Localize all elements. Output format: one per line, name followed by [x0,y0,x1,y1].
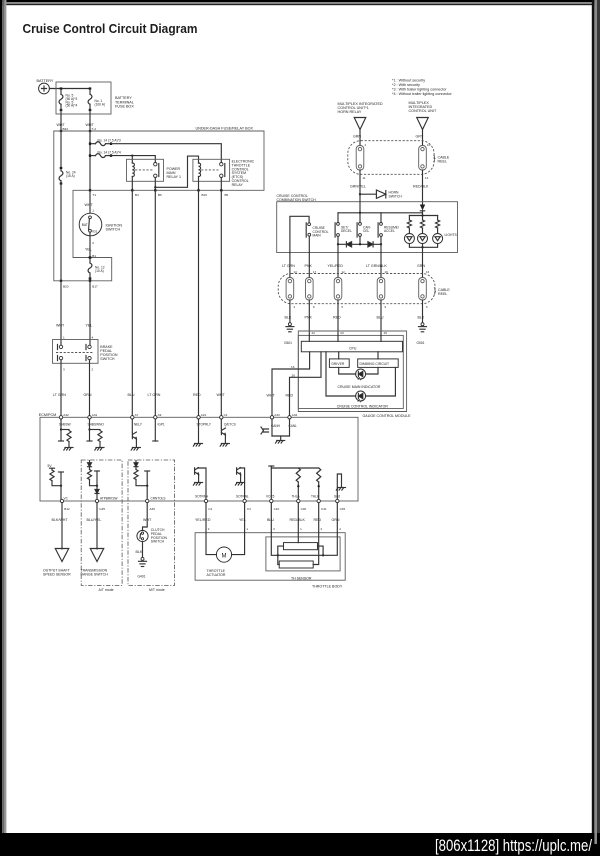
TH sensor right link [318,546,324,555]
ECM/PCM box [40,417,358,501]
svg-text:NELY: NELY [134,423,143,427]
wire relay2 coil to B10 [198,177,200,191]
CANL wire RED to gauge CPU [290,352,322,416]
brake switch dashed actuator [56,352,94,354]
clutch pedal position switch [137,530,148,541]
relay2 contact bottom [220,174,223,177]
main switch terminal bottom [308,233,311,236]
svg-text:C45: C45 [340,507,346,511]
svg-text:Cruise Control Circuit Diagram: Cruise Control Circuit Diagram [23,22,198,36]
relay1 contact top [154,163,157,166]
ignition blade [88,219,91,230]
dimming circuit box [358,359,399,368]
ECM pin A9 [154,416,157,419]
wire set to YEL/RED output [337,244,339,252]
ATP output diode [95,490,99,494]
THLA sense resistor [296,468,300,482]
A41 input network [89,419,91,441]
svg-text:No. 14 (7.5 A)*3: No. 14 (7.5 A)*3 [98,139,121,143]
svg-text:C30: C30 [301,507,307,511]
wire YEL to throttle actuator [244,503,246,533]
ECM pin A21 [197,416,200,419]
node B1 [89,256,91,258]
relay2 contact top [220,163,223,166]
ATP node [96,485,98,487]
svg-text:BAT: BAT [82,223,88,227]
A21 driver to ground [198,419,200,443]
cable reel 2 dashed box [278,274,435,304]
svg-text:GAUGE CONTROL MODULE: GAUGE CONTROL MODULE [363,414,412,418]
ECM bottom pin C4 [204,499,207,502]
wire GRN output [422,253,424,278]
ECM pin A42 [59,416,62,419]
diode D1 [346,242,351,247]
TH sensor RED/BLK wiring [297,533,299,543]
resume switch terminal top [380,223,383,226]
wire PNK into CPU [308,335,310,341]
ATP network diode [88,463,92,467]
set switch terminal top [337,223,340,226]
wire BLU/YEL to transmission range switch [96,503,98,549]
throttle actuator motor wires [206,533,216,555]
cable reel 1 connector right [419,146,427,171]
svg-text:M: M [222,553,227,559]
wire B10 RED to ECM A21 [198,190,200,415]
svg-text:RED: RED [333,316,341,320]
arrow RED/BLK into lamp feed [420,205,425,211]
wire resume to LT GRN/BLK output [380,244,382,252]
svg-text:BLK: BLK [136,550,143,554]
THLB sense resistor [317,468,321,482]
svg-text:(10 A): (10 A) [95,269,104,273]
svg-text:G401: G401 [138,575,146,579]
cruise control indicator box [298,335,403,408]
svg-text:VCC5: VCC5 [266,495,275,499]
wire junction down to relay1 coil [131,156,133,163]
brake switch pin3 bottom-left [59,356,62,359]
watermark bar [0,833,600,856]
svg-text:IG1: IG1 [92,229,97,233]
svg-text:B4: B4 [135,193,139,197]
TH sensor resistor bar upper [284,543,318,550]
main switch wire to PNK output [308,236,310,252]
wire relay1 contact to B6 [154,178,156,191]
lamp L3 [437,228,439,233]
junction to relay coil [131,154,133,156]
svg-text:RED: RED [193,393,201,397]
SG2 ground wire [337,474,341,501]
svg-text:22: 22 [312,331,316,335]
svg-text:SWITCH: SWITCH [389,195,403,199]
svg-text:A43: A43 [274,413,280,417]
svg-text:REEL: REEL [438,160,447,164]
junction relay1 contact branch [154,186,156,188]
svg-text:G501: G501 [417,341,425,345]
svg-text:GRN: GRN [332,518,340,522]
wire CPU loop to LED2 [326,352,356,396]
svg-text:WHT: WHT [56,324,65,328]
wire BLK to ground left [289,300,291,324]
svg-text:1: 1 [63,335,65,339]
svg-text:B6: B6 [158,193,162,197]
svg-text:B5: B5 [225,193,229,197]
TH sensor box [266,537,340,571]
wire CPU to driver [338,352,340,359]
relay1 contact bar [158,164,160,177]
wire GRN to TH sensor [336,503,338,533]
wire GRN from triangle to cable reel [359,129,361,146]
svg-text:DECEL: DECEL [341,229,352,233]
horn switch symbol [376,190,385,198]
junction bus and fuse No.14-1 [89,143,91,145]
ECM bottom pin C31 [317,499,320,502]
A/T mode dash-dot box [81,460,122,585]
ATP network resistor [89,467,91,469]
ground G501 right [419,323,427,332]
main switch blade [305,223,307,237]
throttle body box [195,533,345,581]
wire B6 LT GRN to ECM A9 [154,190,156,415]
wire YEL/RED output [337,253,339,278]
junction bus and fuse No.14-2 [89,154,91,156]
wire WHT to clutch switch [143,503,148,531]
wire GRN/YEL into rail [359,202,361,213]
fuse No.24 [59,167,63,185]
svg-text:G501: G501 [284,341,292,345]
svg-text:Q/ETCS: Q/ETCS [224,423,236,427]
wire dimming to LED1 [366,367,378,374]
svg-text:BLU: BLU [128,393,135,397]
svg-text:16: 16 [426,270,430,274]
fuse No.14 *3 horizontal [89,142,112,146]
wire PNK output [308,253,310,278]
fuse No.5 [59,87,63,111]
wire relay1 contact to relay2 coil [155,156,198,187]
svg-text:B17: B17 [92,285,98,289]
brake switch pin4 top [88,345,91,348]
main switch terminal top [308,223,311,226]
node B20 [60,280,62,282]
node B17 [89,280,91,282]
svg-text:B20: B20 [63,285,69,289]
A42 input network [60,419,62,441]
set switch terminal bottom [337,234,340,237]
battery B1 [39,83,50,94]
wire RED/BLK cable reel to combination switch [422,170,424,204]
ECM bottom pin C3 [243,499,246,502]
wire RED to TH sensor [318,503,320,533]
ECM bottom pin C30 [297,499,300,502]
svg-text:WHT: WHT [217,393,226,397]
svg-text:*3 : With trailer lighting con: *3 : With trailer lighting connector [392,88,447,92]
wire BLU to TH sensor [270,503,272,533]
wire RED into CPU [337,335,339,341]
svg-text:CRNTOLS: CRNTOLS [151,497,166,501]
svg-text:CEL: CEL [363,229,370,233]
svg-text:LT GRN: LT GRN [148,393,161,397]
ECM bottom pin G35 [95,499,98,502]
svg-text:*1 : Without security: *1 : Without security [392,79,425,83]
wire BLK to ground right [422,300,424,324]
svg-text:A/T mode: A/T mode [99,588,114,592]
svg-text:C3: C3 [247,507,251,511]
node B5 [220,189,222,191]
svg-text:YEL: YEL [86,324,93,328]
diode D2 [368,242,373,247]
wire PNK to gauge [308,300,310,335]
lamp L1 [408,228,410,233]
reel2 connector 5 [419,278,427,301]
wire WHT main bus column B [89,131,91,190]
svg-text:THLB: THLB [311,495,319,499]
wire LT GRN/BLK output [380,253,382,278]
svg-text:WHT: WHT [143,518,152,522]
ECM pin A44 [288,416,291,419]
svg-text:TH SENSOR: TH SENSOR [291,576,312,580]
wire LT GRN output [289,253,291,278]
wire column A fuse to box exit B20 [60,184,62,281]
CPU box [301,341,402,352]
svg-text:*2 : With security: *2 : With security [392,83,420,87]
svg-text:THROTTLE BODY: THROTTLE BODY [312,585,343,589]
svg-text:13: 13 [294,270,298,274]
svg-text:T1: T1 [93,193,97,197]
svg-text:19: 19 [385,270,389,274]
svg-text:THLA: THLA [292,495,301,499]
fuse No.1 [88,87,92,111]
svg-text:UNDER-DASH FUSE/RELAY BOX: UNDER-DASH FUSE/RELAY BOX [195,127,253,131]
svg-text:CRUISE MAIN INDICATOR: CRUISE MAIN INDICATOR [338,385,381,389]
wire BLU to gauge [380,300,382,335]
VCC5 supply wire [271,468,318,501]
wire WHT column A inside box [60,131,62,168]
svg-text:A7: A7 [135,413,139,417]
lamp split rail [409,215,437,217]
switch feed rail [338,212,423,214]
clutch node [146,485,148,487]
wire RED/BLK to TH sensor [297,503,299,533]
fuse No.14 *4 horizontal [89,154,112,158]
reel2 connector 3 [334,278,342,301]
wire B5 WHT to ECM C1 [220,190,222,415]
brake pedal position switch box [53,340,99,364]
ground G401 [139,557,147,566]
junction horn switch [359,193,361,195]
brake switch blades [58,345,87,361]
cancel bottom to rail [359,236,361,244]
wire WHT B20 to brake switch [60,281,62,345]
CANH wire WHT to gauge CPU [272,352,310,416]
TH sensor RED wiring [313,533,319,565]
svg-text:YEL: YEL [85,248,92,252]
svg-text:A9: A9 [158,413,162,417]
M/T mode dash-dot box [128,460,175,585]
TH sensor wiper link [278,554,323,556]
svg-text:SWITCH: SWITCH [106,228,121,232]
svg-text:YEL/RED: YEL/RED [195,518,211,522]
reel2 connector 1 [286,278,294,301]
svg-text:(100 A): (100 A) [95,102,106,106]
set bottom to rail [337,236,339,244]
ETCS control relay box [193,159,230,181]
node B6 [154,189,156,191]
wire relay2 contact to B5 [220,178,222,191]
svg-text:LT GRN: LT GRN [282,264,295,268]
wire ignition to fuse No.12 [89,232,91,257]
resume switch wire from rail [380,213,382,223]
svg-text:BLK/WHT: BLK/WHT [52,518,69,522]
svg-text:17: 17 [313,270,317,274]
wire fuse No.14-1 to ETCS relay contact [111,144,221,163]
svg-text:HORN RELAY: HORN RELAY [338,110,362,114]
relay1 dashed actuator [135,169,153,171]
svg-text:SOTRNH: SOTRNH [195,495,209,499]
wire GRY from triangle to cable reel [422,129,424,146]
svg-text:M/T mode: M/T mode [149,588,165,592]
motor driver transistor SOTRNL [237,468,241,475]
svg-text:RANGE SWITCH: RANGE SWITCH [81,573,109,577]
output shaft speed sensor arrow [55,549,69,562]
wire LED2 to dimming circuit [366,367,396,396]
svg-text:C4: C4 [208,507,212,511]
wire YEL/RED to throttle actuator [205,503,207,533]
svg-text:11: 11 [363,176,366,180]
wire B4 BLU to ECM A7 [131,190,133,415]
cancel switch terminal top [359,223,362,226]
svg-text:YEL: YEL [239,518,246,522]
svg-text:4: 4 [92,335,94,339]
wire BLK clutch to ground [142,542,144,560]
wire YEL B17 to brake switch [89,281,91,345]
svg-text:2: 2 [92,241,94,245]
relay1 coil [132,163,134,177]
svg-text:A42: A42 [63,413,69,417]
svg-text:BATTERY: BATTERY [37,79,54,83]
svg-text:GRN/YEL: GRN/YEL [350,185,366,189]
ground G501 left [286,323,294,332]
wire fuse No.1 down to under-dash box [89,110,91,131]
svg-text:CONTROL UNIT: CONTROL UNIT [409,109,437,113]
C1 transistor [220,419,222,428]
speed sensor input node [60,485,62,487]
svg-text:C10: C10 [274,507,280,511]
svg-text:GRN: GRN [353,135,361,139]
fuse No.12 [88,256,92,279]
svg-text:12: 12 [425,176,429,180]
wire brake pin2 to ECM A41 [89,360,91,416]
svg-text:SWITCH: SWITCH [100,357,115,361]
ECM bottom pin C45 [336,499,339,502]
resume bottom to rail [380,236,382,244]
lamp resistor 2 [422,216,424,221]
lamp L2 [422,228,424,233]
svg-text:BLK: BLK [285,316,292,320]
svg-text:DRIVER: DRIVER [332,362,345,366]
svg-text:A44: A44 [292,413,298,417]
lamp bottom rail [409,244,437,248]
set switch blade [334,223,336,237]
svg-text:C31: C31 [321,507,327,511]
relay2 contact bar [224,164,226,177]
brake switch pin1 [59,345,62,348]
wire fuse No.12 to B17 [89,279,91,281]
svg-text:MAIN: MAIN [313,234,322,238]
wire lamp feed [422,211,424,216]
ECM bottom pin C10 [270,499,273,502]
svg-text:WHT: WHT [267,394,276,398]
wire T1 to ignition switch [89,190,91,213]
ignition IG1 terminal [89,229,92,232]
svg-text:SPEED SENSOR: SPEED SENSOR [43,573,71,577]
svg-text:GRN: GRN [417,264,425,268]
LED1 [356,369,366,380]
main switch wire loop to LT GRN output [290,216,309,252]
svg-text:B1: B1 [92,254,96,258]
wire relay1 coil to B4 [131,177,133,191]
cancel switch terminal bottom [359,234,362,237]
ECM pin A43 [270,416,273,419]
svg-text:B33: B33 [63,127,69,131]
wire battery to fuse box [49,88,90,90]
node T1 [89,189,91,191]
svg-text:PNK: PNK [305,264,313,268]
svg-text:ACCEL: ACCEL [384,229,395,233]
svg-text:[806x1128] https://uplc.me/: [806x1128] https://uplc.me/ [435,837,592,855]
driver box [329,359,349,368]
relay2 coil [199,163,201,177]
wire to horn switch [360,193,376,195]
ECM bottom pin B12 [60,499,63,502]
5V pull-up resistor [50,467,55,469]
throttle actuator motor M1 [216,547,231,562]
svg-text:IGP1: IGP1 [158,423,165,427]
under-dash fuse/relay box outline [54,131,264,281]
ECM pin A41 [88,416,91,419]
CAN transceiver parts [271,419,273,436]
svg-text:3: 3 [63,368,65,372]
svg-text:BLK: BLK [418,316,425,320]
svg-text:T-4: T-4 [92,127,97,131]
reel2 connector 2 [306,278,314,301]
connector triangle to horn relay [354,118,366,130]
TH sensor BLU wiring [271,533,278,556]
svg-text:ATPBRKSW: ATPBRKSW [100,497,117,501]
wire fuse No.14-2 to power main relay [111,156,155,163]
clutch network diode [134,463,138,467]
wire CPU to dimming circuit [377,352,379,359]
ignition switch [79,213,102,236]
svg-text:RELAY: RELAY [232,183,244,187]
svg-text:DIMMING CIRCUIT: DIMMING CIRCUIT [360,362,390,366]
cable reel 1 dashed box [348,141,434,175]
wire BLK/WHT to speed sensor [61,503,63,549]
svg-text:BLU: BLU [377,316,384,320]
resume switch terminal bottom [380,234,383,237]
svg-text:A21: A21 [201,413,207,417]
motor driver transistor SOTRNH [195,468,199,475]
svg-text:BLU: BLU [267,518,274,522]
lamp resistor 1 [408,216,410,221]
svg-text:RED: RED [286,394,294,398]
node B10 [197,189,199,191]
svg-text:YEL/RED: YEL/RED [328,264,344,268]
svg-text:SOTRNL: SOTRNL [236,495,249,499]
wire RED to gauge [337,300,339,335]
wire brake pin3 to ECM A42 [60,360,62,416]
battery terminal fuse box [56,82,111,114]
svg-text:ACTUATOR: ACTUATOR [207,573,226,577]
svg-text:REEL: REEL [438,292,447,296]
